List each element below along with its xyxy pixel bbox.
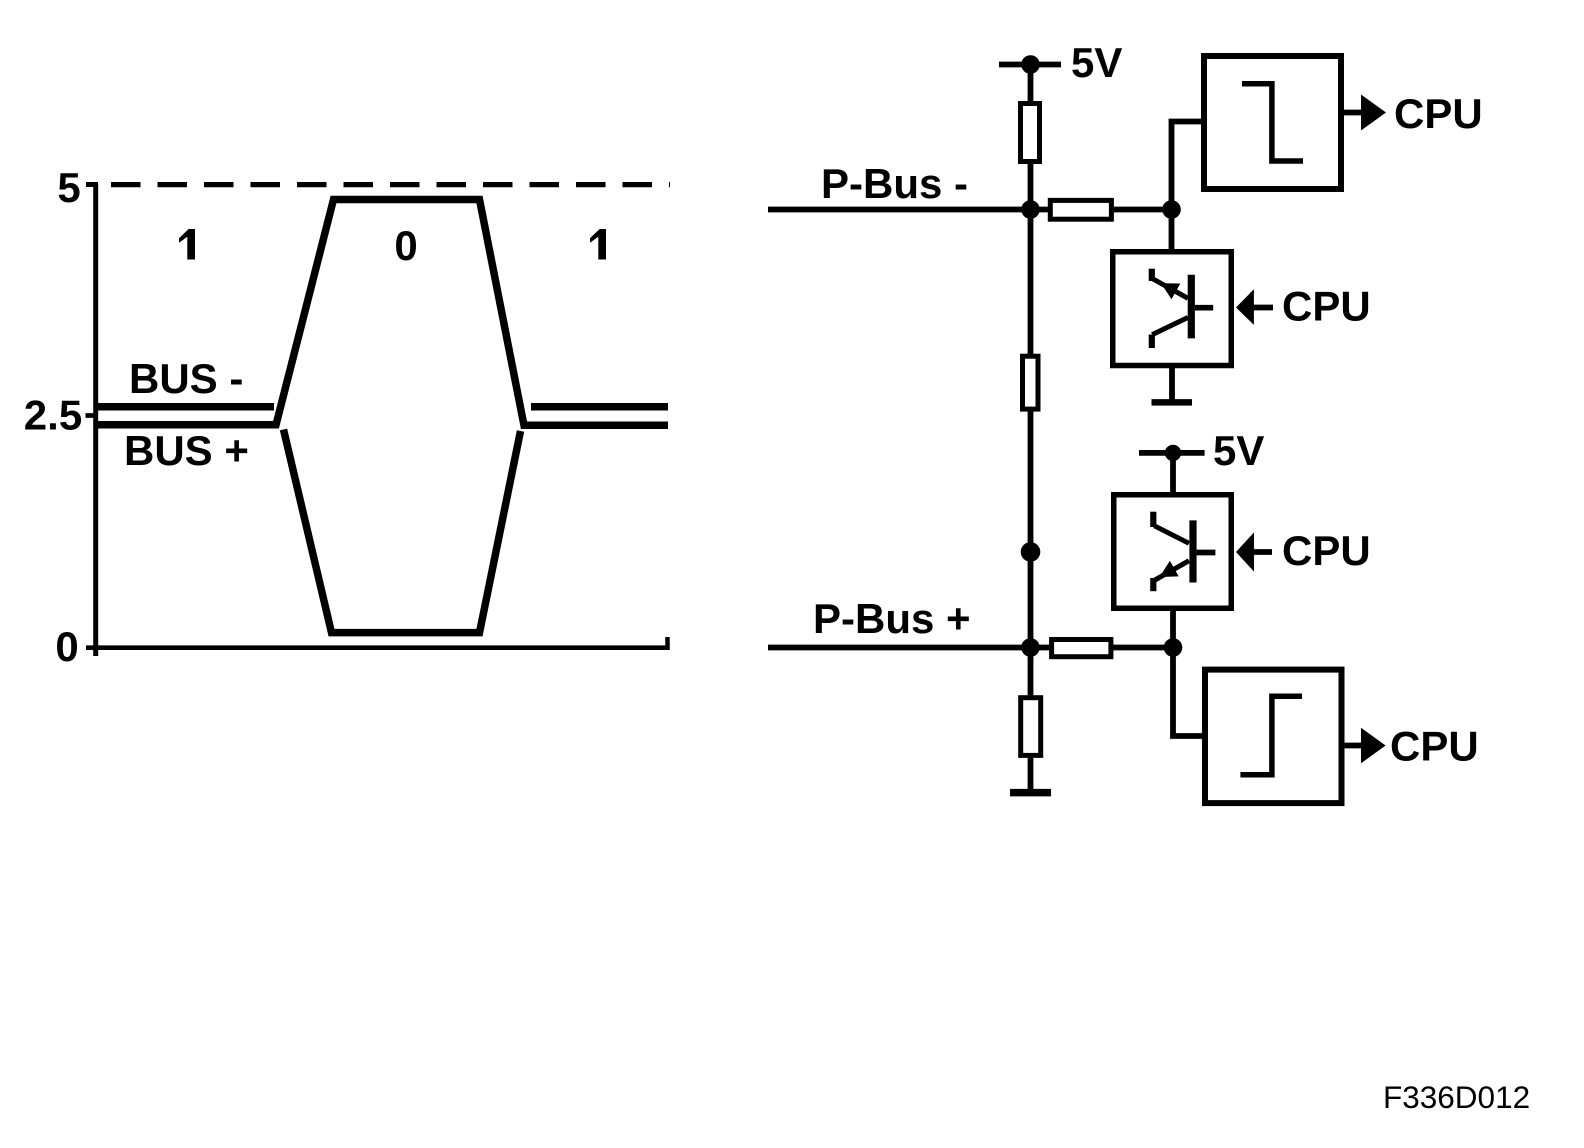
5V supply rail (top): [999, 62, 1061, 68]
5V supply rail (middle): [1139, 450, 1205, 456]
resistor R5 (divider middle): [1023, 356, 1039, 409]
junction dot at middle 5V: [1165, 445, 1181, 461]
junction dot P-Bus+ node: [1021, 638, 1040, 657]
comparator box U2: [1205, 670, 1342, 804]
wire R2 to node A: [1112, 207, 1173, 213]
svg-text:2.5: 2.5: [24, 392, 82, 439]
transistor Q1 symbol: [1152, 269, 1213, 348]
wire node A down to transistor Q1: [1169, 210, 1175, 253]
CPU input arrowhead to Q1: [1236, 289, 1254, 325]
U2 output wire: [1345, 743, 1364, 749]
resistor R3 (series in P-Bus+): [1052, 640, 1111, 657]
junction dot at top 5V: [1021, 55, 1040, 74]
svg-text:F336D012: F336D012: [1383, 1079, 1530, 1115]
BUS+ waveform (continuous trapezoid up): [97, 200, 668, 426]
CPU input arrowhead to Q2: [1236, 532, 1254, 571]
wire P-Bus- node down to resistor R5: [1028, 210, 1034, 357]
wire R5 down to P-Bus+ node: [1028, 409, 1034, 650]
CPU input wire to Q1: [1253, 305, 1273, 311]
U2 output arrowhead: [1361, 728, 1386, 764]
svg-text:BUS +: BUS +: [124, 427, 249, 474]
svg-text:5V: 5V: [1071, 39, 1122, 86]
BUS- waveform trapezoid down segment: [284, 430, 521, 633]
svg-text:0: 0: [394, 222, 417, 269]
comparator box U1: [1204, 56, 1341, 189]
junction dot node A: [1162, 200, 1181, 219]
wire R4 to ground: [1028, 754, 1034, 791]
junction dot on divider: [1021, 542, 1041, 562]
wire R3 to node B: [1112, 645, 1175, 651]
P-Bus+ wire: [768, 645, 1050, 651]
wire P-Bus+ node down to resistor R4: [1028, 648, 1034, 699]
svg-text:0: 0: [55, 623, 78, 670]
dashed 5V reference line: [111, 182, 670, 187]
y-axis tick at 5: [86, 182, 98, 187]
ground (divider): [1010, 789, 1051, 797]
transistor box Q2: [1114, 495, 1232, 609]
svg-text:5: 5: [57, 164, 80, 211]
svg-text:CPU: CPU: [1390, 723, 1479, 770]
U1 output wire: [1344, 110, 1363, 116]
resistor R2 (series in P-Bus-): [1050, 200, 1111, 219]
y-axis tick at 2.5: [86, 413, 99, 418]
falling-edge symbol in U1: [1242, 84, 1303, 161]
CPU input wire to Q2: [1253, 549, 1272, 555]
bit label 1 (right): [590, 229, 606, 260]
svg-text:P-Bus +: P-Bus +: [813, 595, 971, 642]
wire R1 to P-Bus- node: [1028, 161, 1034, 212]
transistor Q2 symbol: [1153, 512, 1215, 592]
junction dot P-Bus- node: [1021, 200, 1040, 219]
x-axis (0V line): [86, 645, 670, 650]
wire Q2 down to P-Bus+ node B: [1170, 611, 1176, 650]
wire node A up to comparator U1: [1172, 122, 1202, 213]
U1 output arrowhead: [1361, 95, 1386, 131]
wire Q1 to ground: [1169, 368, 1175, 400]
wire node B down to comparator U2: [1173, 648, 1202, 737]
svg-text:5V: 5V: [1213, 427, 1264, 474]
bit label 1 (left): [179, 229, 195, 260]
svg-text:BUS -: BUS -: [129, 355, 243, 402]
svg-text:CPU: CPU: [1282, 283, 1371, 330]
BUS- waveform right flat segment: [531, 403, 668, 411]
resistor R4 (to ground): [1021, 698, 1041, 756]
y-axis line: [93, 185, 98, 657]
svg-text:CPU: CPU: [1394, 90, 1483, 137]
svg-text:P-Bus -: P-Bus -: [821, 160, 968, 207]
rising-edge symbol in U2: [1240, 696, 1302, 775]
junction dot node B: [1164, 638, 1183, 657]
resistor R1 (pull-up to 5V): [1021, 104, 1040, 162]
wire 5V to transistor Q2: [1170, 453, 1176, 495]
P-Bus- wire: [768, 207, 1049, 213]
BUS- waveform left flat segment: [97, 403, 274, 411]
transistor box Q1: [1113, 252, 1232, 366]
svg-text:CPU: CPU: [1282, 527, 1371, 574]
wire 5V to resistor R1: [1028, 65, 1034, 105]
ground (Q1): [1152, 399, 1193, 406]
x-axis right end tick: [665, 637, 670, 650]
